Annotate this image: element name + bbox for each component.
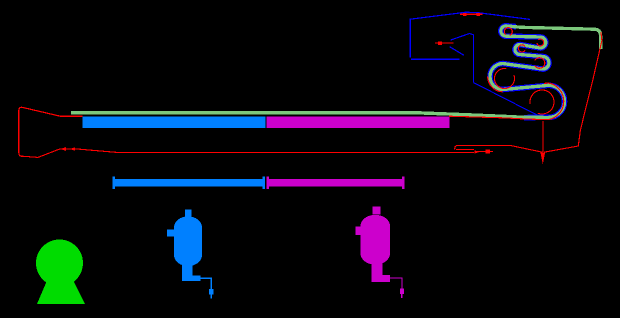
- flow arrow A1: [60, 147, 66, 151]
- dryer roll R5 (red arc): [495, 68, 515, 88]
- hood inner wall vertical (blue): [473, 35, 475, 83]
- hood air arrow top (red): [460, 13, 483, 16]
- forming wire (green strip): [71, 113, 510, 117]
- white water return line: [22, 149, 474, 158]
- web serpentine path blue outline: [490, 26, 565, 118]
- hood outline (blue): [410, 12, 530, 59]
- dryer roll R6 (red arc): [530, 90, 554, 114]
- dimension bar blue: [113, 177, 266, 189]
- flow arrow A2: [70, 147, 75, 151]
- dryer roll R1 (red arc): [504, 28, 512, 36]
- tank T1 (blue): [167, 210, 214, 299]
- valve block line (red): [477, 150, 493, 154]
- paper down line with arrow (red): [540, 121, 545, 164]
- dryer roll R4 (red arc): [535, 58, 545, 69]
- tank T2 (magenta): [356, 207, 404, 299]
- hood lower boundary diagonal (blue): [474, 83, 539, 116]
- dimension bar magenta: [267, 177, 405, 189]
- web serpentine path green: [490, 26, 601, 118]
- dryer roll R2 (red arc): [537, 39, 544, 46]
- dryer section bar 2 (magenta): [267, 116, 450, 128]
- paper tail after dryer (red): [544, 32, 602, 152]
- dryer roll R3 (red arc): [518, 45, 525, 52]
- headbox outline: [19, 107, 83, 156]
- felt return line with hook (red): [455, 145, 543, 152]
- red web line under wire (right part): [449, 83, 564, 120]
- short middle line (red): [456, 148, 474, 150]
- arrowhead on return line (red): [475, 150, 480, 154]
- hood air arrow middle (red): [435, 42, 454, 45]
- hood nozzle wedge (blue): [450, 34, 474, 56]
- pump (green): [36, 240, 85, 305]
- red web line outer of big left bend: [488, 77, 503, 92]
- dryer section bar 1 (blue): [83, 116, 266, 128]
